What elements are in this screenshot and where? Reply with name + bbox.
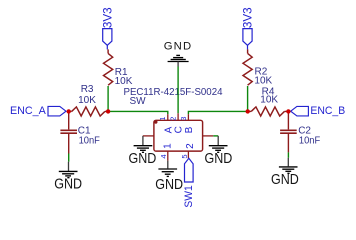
power flag SW1 (encoder pin 5): [185, 158, 194, 182]
svg-text:GND: GND: [271, 172, 299, 188]
pin 2 stub: [177, 113, 179, 120]
ground GND (below C2): [271, 158, 299, 188]
encoder pin-1 origin dot: [154, 120, 157, 123]
wire node B1 to encoder pin 3: [188, 111, 247, 114]
svg-text:5: 5: [180, 154, 189, 158]
svg-text:2: 2: [169, 117, 178, 121]
svg-text:1: 1: [158, 117, 167, 121]
svg-text:1: 1: [162, 143, 173, 149]
svg-text:SW1: SW1: [183, 185, 195, 207]
left mounting pin: [143, 135, 154, 137]
ground GND (left mounting pin): [129, 136, 157, 167]
svg-text:10nF: 10nF: [299, 135, 320, 146]
wire C1 to ground: [68, 154, 70, 162]
junction node B2 (R4 / C2 / ENC_B): [286, 109, 290, 113]
svg-text:ENC_B: ENC_B: [310, 105, 345, 117]
pin 1 stub: [167, 114, 169, 120]
encoder pins (red stubs): [143, 113, 213, 160]
junction node B1 (R2 / R4 / wire to pin B): [246, 109, 250, 113]
resistor R3: [69, 107, 108, 116]
capacitor C1: [60, 111, 77, 153]
wire top GND to encoder pin 2 (common C): [177, 67, 179, 114]
ground GND (right mounting pin): [205, 136, 233, 167]
svg-text:4: 4: [159, 154, 168, 158]
svg-text:GND: GND: [155, 177, 183, 193]
resistor R2: [243, 49, 252, 85]
power flag 3V3 (right): [243, 29, 252, 50]
svg-text:10K: 10K: [78, 95, 96, 106]
svg-text:10nF: 10nF: [79, 135, 100, 146]
encoder SW (PEC11R) body: [154, 120, 203, 151]
capacitor C2: [280, 111, 297, 152]
svg-text:3V3: 3V3: [243, 7, 255, 28]
ground GND (below C1): [54, 162, 82, 193]
svg-text:3: 3: [179, 117, 188, 121]
svg-text:GND: GND: [129, 151, 157, 167]
junction node A2 (R1 / R3 / wire to pin A): [106, 109, 110, 113]
wire node A2 to encoder pin 1: [108, 111, 168, 114]
ground GND (encoder pin 4): [155, 161, 183, 193]
svg-text:R3: R3: [81, 84, 94, 95]
svg-text:GND: GND: [164, 41, 192, 53]
junction node A1 (ENC_A / R3 / C1): [67, 109, 71, 113]
wire R2 to node B1: [247, 86, 249, 111]
power flag 3V3 (left): [103, 29, 112, 50]
resistor R1: [104, 49, 113, 85]
pin 5 stub: [187, 151, 189, 158]
wire C2 to ground: [287, 152, 289, 157]
svg-text:GND: GND: [205, 151, 233, 167]
global label ENC_B: [291, 105, 345, 117]
right mounting pin: [203, 135, 214, 137]
svg-text:2: 2: [185, 143, 196, 149]
svg-text:SW: SW: [130, 96, 147, 107]
svg-text:3V3: 3V3: [103, 7, 115, 28]
svg-text:10K: 10K: [260, 95, 278, 106]
resistor R4: [248, 107, 289, 116]
svg-text:10K: 10K: [115, 76, 133, 87]
pin 3 stub: [187, 114, 189, 120]
pin 4 stub: [167, 151, 169, 161]
ground GND (top, for encoder common pin C): [164, 41, 192, 67]
wire right mounting pin to ground: [213, 135, 218, 137]
svg-text:B: B: [184, 126, 195, 133]
global label ENC_A: [10, 105, 66, 117]
wire R1 to node A2: [107, 86, 109, 111]
svg-text:10K: 10K: [254, 76, 272, 87]
svg-text:ENC_A: ENC_A: [10, 105, 47, 117]
svg-text:GND: GND: [54, 176, 82, 192]
